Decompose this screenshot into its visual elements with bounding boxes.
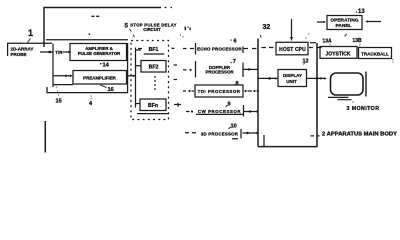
- svg-text:ECHO PROCESSOR: ECHO PROCESSOR: [197, 47, 242, 52]
- joystick box 13A: [320, 47, 357, 59]
- T/R junction vertical line: [52, 44, 54, 88]
- svg-text:TRACKBALL: TRACKBALL: [361, 52, 389, 57]
- distribution line: [135, 48, 137, 108]
- svg-text:BF2: BF2: [149, 65, 159, 71]
- svg-text:BFn: BFn: [148, 103, 158, 109]
- pulser box 14: [70, 44, 127, 61]
- label 14: [100, 63, 101, 64]
- right trunk line: [316, 43, 318, 147]
- wire display unit to monitor: [307, 77, 324, 79]
- svg-text:14: 14: [103, 62, 110, 68]
- svg-text:5: 5: [125, 22, 129, 29]
- processor box 10: [232, 129, 241, 139]
- apparatus main body outline bottom-left segment: [44, 121, 46, 153]
- label T/R: [55, 50, 63, 55]
- svg-text:CIRCUIT: CIRCUIT: [143, 27, 161, 32]
- svg-text:13B: 13B: [353, 38, 363, 44]
- label 1 (probe): [28, 28, 33, 38]
- svg-text:T/R: T/R: [55, 50, 63, 55]
- svg-text:PULSE GENERATOR: PULSE GENERATOR: [78, 51, 121, 56]
- svg-text:TDI PROCESSOR: TDI PROCESSOR: [198, 89, 241, 94]
- processor box 7: [196, 61, 244, 78]
- arrow into operating panel (left): [317, 21, 324, 23]
- monitor 3: [331, 73, 364, 95]
- label 2 apparatus main body: [311, 135, 320, 137]
- svg-text:HOST CPU: HOST CPU: [279, 47, 306, 53]
- label 12: [304, 63, 305, 65]
- preamplifier box 16: [73, 71, 127, 85]
- wire processor6 to bus: [244, 48, 257, 50]
- svg-text:8: 8: [236, 81, 239, 87]
- svg-text:PROCESSOR: PROCESSOR: [205, 70, 234, 75]
- processor box 6: [196, 43, 244, 55]
- svg-text:OPERATING: OPERATING: [330, 17, 358, 23]
- apparatus main body bottom-right border: [258, 146, 318, 148]
- label 10: [229, 127, 231, 129]
- operating panel box 13: [327, 16, 362, 30]
- label 32: [263, 24, 271, 31]
- wire box4 to beamformer distribution line: [128, 75, 133, 77]
- svg-text:13A: 13A: [323, 38, 333, 44]
- bus 32: [257, 39, 259, 147]
- host cpu box 12: [276, 42, 308, 55]
- control line dash top-left: [92, 15, 100, 17]
- wire probe to T/R line: [40, 51, 53, 53]
- svg-text:6: 6: [234, 38, 237, 44]
- labels 13A 13B: [323, 38, 333, 44]
- line under BFn: [137, 113, 169, 115]
- label 4 with dotted leader: [90, 96, 92, 100]
- wire T/R line to preamplifier: [53, 75, 71, 77]
- svg-text:PROBE: PROBE: [11, 52, 27, 57]
- label 6: [231, 40, 232, 41]
- apparatus main body outline top-left corner: [44, 8, 161, 48]
- label 7: [231, 62, 232, 63]
- label 9: [226, 105, 228, 107]
- delay circuit dashed box 5: [131, 41, 169, 120]
- label 16 with tick: [100, 85, 107, 88]
- svg-text:2D-ARRAY: 2D-ARRAY: [11, 46, 34, 51]
- vertical ellipsis: [154, 76, 156, 90]
- label 8: [236, 81, 239, 87]
- beamformer BFn: [140, 99, 166, 111]
- display unit box 11: [278, 70, 307, 87]
- svg-text:UNIT: UNIT: [286, 79, 297, 84]
- wire bus to host cpu (dashed): [262, 47, 274, 49]
- wire T/R to pulser: [63, 51, 69, 53]
- beamformer BF1: [149, 47, 159, 53]
- transceiver unit box 4: [46, 40, 128, 93]
- svg-text:BF1: BF1: [149, 47, 159, 53]
- wire processor10 to bus (arrow): [243, 132, 257, 134]
- wire host cpu to panel devices (dashed): [309, 47, 322, 49]
- wire bus to display unit: [259, 77, 277, 79]
- wire processor7 to bus: [244, 68, 259, 70]
- dashed wires beamformers to processors: [183, 48, 194, 50]
- smudge label near 143: [180, 27, 191, 38]
- svg-text:13: 13: [358, 9, 365, 15]
- 2D array probe: [7, 43, 52, 56]
- svg-text:3 MONITOR: 3 MONITOR: [347, 106, 380, 112]
- processor box 9: [196, 105, 244, 117]
- label 13: [356, 11, 357, 12]
- svg-text:1: 1: [28, 28, 33, 38]
- svg-text:32: 32: [263, 24, 271, 31]
- svg-text:15: 15: [56, 99, 62, 105]
- arrow into operating panel (right): [368, 21, 382, 23]
- processor box 8: [195, 85, 243, 97]
- svg-text:7: 7: [233, 59, 236, 65]
- svg-text:DISPLAY: DISPLAY: [283, 73, 302, 78]
- wire processor9 to bus (arrow): [244, 111, 257, 113]
- svg-text:PANEL: PANEL: [336, 23, 352, 29]
- svg-text:PREAMPLIFIER: PREAMPLIFIER: [83, 76, 117, 81]
- control line down into host cpu: [291, 19, 293, 38]
- label 15 with dotted leader: [57, 87, 59, 96]
- svg-text:16: 16: [108, 87, 114, 93]
- svg-text:2 APPARATUS MAIN BODY: 2 APPARATUS MAIN BODY: [322, 132, 398, 138]
- trackball box 13B: [359, 48, 392, 59]
- beamformer BF2: [141, 61, 166, 73]
- wire processor8 to bus: [244, 90, 246, 92]
- label 5 and delay circuit caption: [125, 22, 129, 29]
- svg-text:JOYSTICK: JOYSTICK: [325, 52, 350, 58]
- svg-text:10: 10: [231, 124, 237, 130]
- svg-text:CW PROCESSOR: CW PROCESSOR: [198, 109, 241, 114]
- svg-text:3D PROCESSOR: 3D PROCESSOR: [201, 132, 239, 137]
- svg-text:12: 12: [303, 58, 309, 64]
- svg-text:9: 9: [228, 101, 231, 107]
